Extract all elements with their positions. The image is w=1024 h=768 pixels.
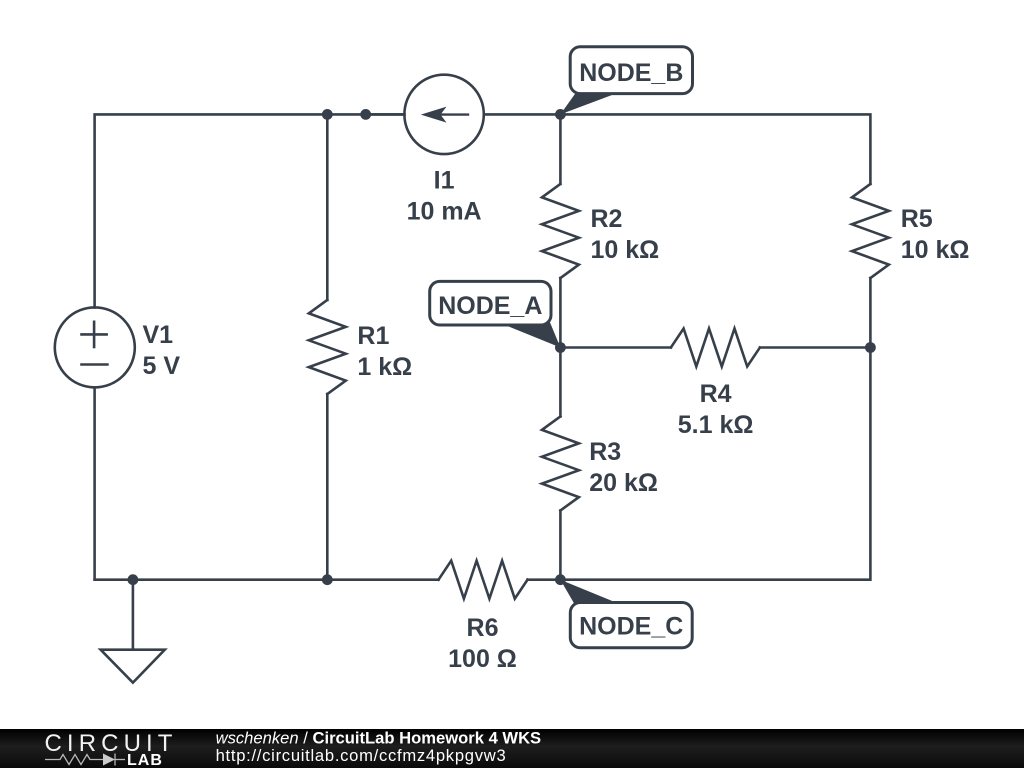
current source I1 circle — [404, 75, 483, 154]
resistor R4 zigzag — [671, 329, 760, 367]
wire R1 branch top lead — [326, 114, 329, 300]
resistor R2 zigzag — [542, 184, 579, 278]
node dot right mid — [865, 342, 876, 353]
footer bar — [0, 729, 1024, 768]
node dot NODE_C — [555, 574, 566, 585]
svg-text:R2: R2 — [591, 205, 623, 233]
wire node A horizontal to R4 — [560, 346, 671, 349]
wire R1 branch bottom lead — [326, 394, 329, 580]
svg-text:NODE_A: NODE_A — [438, 292, 542, 320]
wire I1 stub — [366, 113, 405, 116]
wire left vertical below V1 — [93, 387, 96, 579]
node NODE_A callout — [430, 281, 561, 347]
svg-text:NODE_C: NODE_C — [579, 613, 683, 641]
node dot NODE_A — [555, 342, 566, 353]
node NODE_B callout — [560, 47, 692, 115]
I1 arrowhead — [421, 107, 447, 123]
wire bottom horizontal left of R6 — [95, 578, 439, 581]
svg-text:5.1 kΩ: 5.1 kΩ — [678, 411, 754, 439]
ground triangle — [101, 650, 165, 683]
svg-text:LAB: LAB — [127, 752, 163, 768]
svg-text:R6: R6 — [467, 614, 499, 642]
wire R2 bottom lead / node A — [559, 278, 562, 417]
ground stub wire — [132, 580, 135, 650]
node NODE_C callout — [560, 580, 692, 648]
resistor R3 zigzag — [542, 417, 579, 511]
I1 arrow shaft — [432, 113, 468, 115]
resistor R1 zigzag — [309, 300, 346, 394]
svg-text:R1: R1 — [357, 322, 389, 350]
svg-text:5 V: 5 V — [143, 352, 181, 380]
voltage source V1 circle — [55, 307, 135, 387]
resistor R5 zigzag — [852, 184, 889, 278]
V1 plus sign — [82, 333, 107, 336]
svg-text:NODE_B: NODE_B — [579, 59, 683, 87]
wire top horizontal left segment — [95, 114, 405, 307]
svg-text:20 kΩ: 20 kΩ — [589, 469, 658, 497]
svg-text:10 mA: 10 mA — [407, 198, 482, 226]
wire bottom horizontal right of R6 — [528, 278, 871, 580]
node dot ground — [127, 574, 138, 585]
wire R3 bottom lead — [559, 511, 562, 580]
svg-text:http://circuitlab.com/ccfmz4pk: http://circuitlab.com/ccfmz4pkpgvw3 — [216, 746, 507, 765]
V1 minus sign — [82, 363, 108, 366]
svg-text:V1: V1 — [143, 321, 174, 349]
node dot top R1 — [322, 109, 333, 120]
svg-text:R5: R5 — [901, 205, 933, 233]
wire R4 to right vertical — [760, 346, 871, 349]
resistor R6 zigzag — [439, 561, 528, 599]
wire R2 top lead — [559, 114, 562, 184]
node dot R1 bottom — [322, 574, 333, 585]
svg-text:10 kΩ: 10 kΩ — [591, 236, 660, 264]
wire top horizontal right segment — [484, 114, 871, 184]
footer logo CIRCUIT — [45, 730, 178, 768]
logo resistor-diode line — [45, 754, 125, 766]
svg-text:10 kΩ: 10 kΩ — [901, 236, 970, 264]
svg-text:R4: R4 — [700, 380, 732, 408]
svg-text:I1: I1 — [434, 167, 455, 195]
svg-text:R3: R3 — [589, 438, 621, 466]
svg-text:100 Ω: 100 Ω — [448, 645, 517, 673]
node dot NODE_B — [555, 109, 566, 120]
node dot top I1 stub — [360, 109, 371, 120]
svg-text:1 kΩ: 1 kΩ — [357, 353, 412, 381]
